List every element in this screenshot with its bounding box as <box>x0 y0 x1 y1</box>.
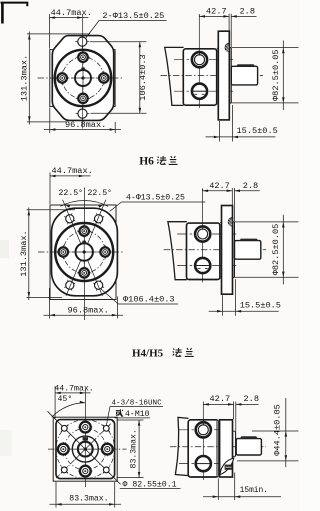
svg-text:44.7max.: 44.7max. <box>54 384 93 393</box>
second diagonal (dash, BL-TR) <box>56 420 114 478</box>
svg-text:Φ44.4±0.05: Φ44.4±0.05 <box>272 404 282 456</box>
pilot circle Φ82.5 (bold) <box>55 50 111 106</box>
bolt circle (dash-dot) <box>62 57 104 99</box>
svg-text:2.8: 2.8 <box>240 7 255 17</box>
svg-text:42.7: 42.7 <box>210 394 231 404</box>
corner hole bolt circle (dash) <box>56 420 115 479</box>
svg-text:15.5±0.5: 15.5±0.5 <box>237 126 278 136</box>
dim 83.3max bottom (s3) <box>55 482 57 508</box>
svg-text:83.3max.: 83.3max. <box>129 429 138 468</box>
label 2-Φ13.5±0.25 leader <box>99 20 167 22</box>
dim 106.4±0.3 (s1) <box>90 41 147 43</box>
port bottom (s3) <box>196 456 211 471</box>
mounting ear hole bottom <box>76 113 90 115</box>
svg-text:42.7: 42.7 <box>209 181 230 191</box>
dim Φ82.5±0.05 <box>235 221 299 223</box>
motor body (side view) <box>168 222 187 280</box>
svg-text:131.3max.: 131.3max. <box>19 55 29 101</box>
flange plate (side) <box>218 31 229 120</box>
vertical centerline (s2) <box>83 188 85 321</box>
label 或 4-M10 <box>115 417 151 419</box>
thread depth cutaway (lens-shaped pocket with insert) <box>220 458 234 475</box>
shaft key <box>239 239 258 241</box>
svg-text:22.5°: 22.5° <box>88 189 113 198</box>
dim 42.7 <box>198 14 200 16</box>
horizontal centerline (s2) <box>38 251 124 253</box>
dim 2.8 <box>234 190 259 192</box>
port manifold block <box>183 49 216 105</box>
vertical centerline <box>82 14 84 129</box>
label Φ82.55±0.1 <box>120 488 181 490</box>
45° diagonal / leader to Φ82.55 <box>48 411 121 484</box>
port top (s3) <box>196 422 211 437</box>
port hole N <box>76 56 90 58</box>
pilot circle (bold, s2) <box>55 223 113 281</box>
port holes N/E/S/W (s3) <box>78 426 92 428</box>
dim 42.7 (s3) <box>233 402 235 420</box>
port hole E <box>97 77 111 79</box>
svg-text:Φ82.5±0.05: Φ82.5±0.05 <box>271 224 281 276</box>
svg-text:Φ 82.55±0.1: Φ 82.55±0.1 <box>123 480 177 489</box>
dim 96.8max (s1) <box>49 108 51 134</box>
square flange outline <box>56 420 115 479</box>
pilot boss Φ82.5 <box>230 48 232 104</box>
mounting ear holes 4-Φ13.5 <box>64 217 75 222</box>
svg-text:106.4±0.3: 106.4±0.3 <box>138 54 148 100</box>
mounting ear hole top (2-Φ13.5) <box>75 41 89 43</box>
output shaft <box>235 241 261 260</box>
port (top, with plug) <box>195 226 210 241</box>
dim 131.3max (s2) <box>27 209 76 211</box>
svg-text:44.7max.: 44.7max. <box>51 8 92 18</box>
shaft centerline <box>164 249 267 251</box>
center bore + hub (s3) <box>72 436 98 462</box>
dim 15.5±0.5 <box>218 121 220 142</box>
svg-text:22.5°: 22.5° <box>59 189 84 198</box>
svg-text:4-Φ13.5±0.25: 4-Φ13.5±0.25 <box>126 193 185 202</box>
port centerlines (s3) <box>179 429 233 431</box>
port block (s3) <box>188 420 218 477</box>
dim Φ82.5±0.05 <box>232 47 299 49</box>
ear hole centerline ±22.5° <box>63 200 103 296</box>
dim 96.8max (s2) <box>48 288 50 319</box>
svg-text:Φ82.5±0.05: Φ82.5±0.05 <box>271 49 281 101</box>
label 4-3/8-16UNC <box>110 406 163 408</box>
label 4-Φ13.5±0.25 <box>122 201 206 203</box>
svg-text:83.3max.: 83.3max. <box>69 494 108 503</box>
pilot boss Φ82.5 <box>233 222 235 278</box>
output shaft (s3) <box>236 439 261 455</box>
shaft key (s3) <box>240 436 258 438</box>
center shaft hub (s2) <box>76 243 93 260</box>
flange plate (side) <box>222 206 233 295</box>
flange bolt hole (section, hatched) <box>225 43 229 52</box>
output shaft <box>231 66 257 85</box>
dim 44.7max (s1) <box>49 14 51 49</box>
dim 131.3max (s1) <box>27 33 90 35</box>
dim Φ44.4±0.05 (s3) <box>252 430 299 432</box>
H4/H5 flange outline <box>52 208 118 296</box>
horizontal centerline <box>38 77 125 79</box>
dim 44.7max (s3) <box>54 386 56 419</box>
port (bottom, with slotted plug) <box>192 84 207 99</box>
dim 22.5°|22.5° arc <box>60 200 108 206</box>
svg-text:Φ106.4±0.3: Φ106.4±0.3 <box>123 295 175 305</box>
horizontal centerline (s3) <box>48 448 127 450</box>
svg-text:4-3/8-16UNC: 4-3/8-16UNC <box>112 399 163 407</box>
corner holes 4-3/8-16UNC <box>61 425 68 432</box>
dim 15min (s3) <box>217 479 219 501</box>
svg-text:2.8: 2.8 <box>243 181 258 191</box>
svg-text:H4/H5: H4/H5 <box>132 348 164 360</box>
svg-text:2.8: 2.8 <box>244 394 259 404</box>
mounting plate (s3) <box>220 420 233 477</box>
flange bolt hole (section, hatched) <box>228 218 232 227</box>
vertical centerline (s3) <box>84 389 86 488</box>
port hole W <box>55 77 69 79</box>
svg-text:4-M10: 4-M10 <box>125 410 150 419</box>
svg-text:96.8max.: 96.8max. <box>68 306 109 316</box>
port (bottom, with slotted plug) <box>195 258 210 273</box>
shaft centerline <box>161 74 264 76</box>
motor body square (behind flange) <box>50 50 115 107</box>
label Φ106.4±0.3 <box>118 303 178 305</box>
dim 42.7 <box>202 189 204 191</box>
ear hole centerline ±22.5° <box>66 200 106 296</box>
dim 44.7max (s2) <box>49 173 51 205</box>
motor body square (behind, s3) <box>53 417 117 481</box>
port bolt circle (dash) <box>65 428 107 470</box>
svg-text:45°: 45° <box>58 395 73 404</box>
pilot boss Φ44.4 (s3) <box>235 431 237 456</box>
svg-text:42.7: 42.7 <box>206 7 227 17</box>
port hole S <box>76 97 90 99</box>
bolt circle dash-dot (s2) <box>63 231 105 273</box>
svg-text:H6: H6 <box>139 155 154 167</box>
motor body (side view) <box>165 47 184 105</box>
port (top, with plug) <box>192 52 207 67</box>
shaft key <box>236 64 255 66</box>
motor body (side view s3) <box>175 417 188 475</box>
svg-text:44.7max.: 44.7max. <box>52 166 93 176</box>
port holes N/E/S/W (s2) <box>77 230 91 232</box>
dim 2.8 <box>231 15 256 17</box>
dim 83.3max vertical (s3) <box>117 419 144 421</box>
svg-text:96.8max.: 96.8max. <box>65 120 106 130</box>
motor body square (behind flange, s2) <box>50 205 116 300</box>
45° dim arc <box>52 403 86 417</box>
dim 15.5±0.5 <box>222 295 224 316</box>
center shaft hub <box>75 70 91 86</box>
svg-text:15min.: 15min. <box>240 486 268 495</box>
shaft centerline (s3) <box>170 446 266 448</box>
scan border artifact top-left <box>1 3 28 7</box>
svg-text:131.3max.: 131.3max. <box>19 230 29 276</box>
dim 2.8 (s3) <box>236 403 259 405</box>
svg-text:15.5±0.5: 15.5±0.5 <box>240 300 281 310</box>
svg-text:2-Φ13.5±0.25: 2-Φ13.5±0.25 <box>102 11 164 21</box>
port manifold block <box>187 223 220 279</box>
H6 flange outline <box>52 36 113 121</box>
